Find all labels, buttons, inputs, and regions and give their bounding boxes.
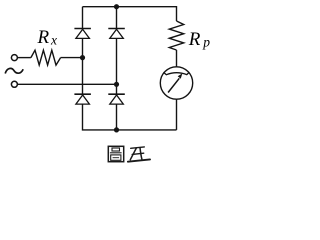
svg-text:x: x [50,32,57,47]
svg-text:p: p [202,35,210,50]
svg-text:R: R [37,27,50,48]
svg-text:R: R [188,29,201,50]
